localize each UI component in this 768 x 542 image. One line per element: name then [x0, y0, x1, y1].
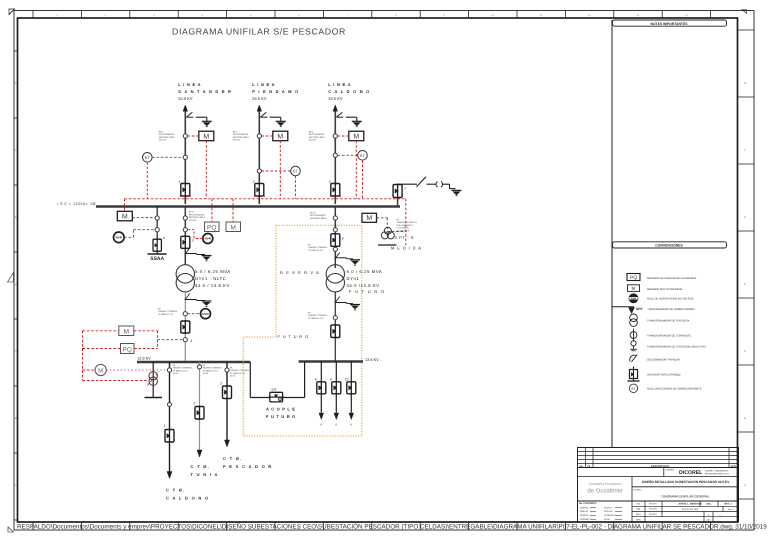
svg-text:13.8 KV: 13.8 KV: [365, 357, 379, 362]
svg-text:R: R: [350, 424, 352, 427]
svg-text:34.5 KV: 34.5 KV: [252, 96, 267, 101]
T2 secondary ground stub: [335, 303, 353, 304]
future feeder 10 tag: [350, 424, 352, 427]
svg-text:A: A: [15, 483, 17, 487]
svg-text:TRANSF. CORRIEN-: TRANSF. CORRIEN-: [308, 314, 328, 317]
svg-text:REVISÓ: REVISÓ: [580, 514, 589, 517]
svg-text:TRANSF. CORRIEN-: TRANSF. CORRIEN-: [203, 367, 223, 370]
feeder 1 junction red: [167, 368, 171, 372]
drawing title: [172, 27, 346, 37]
T1 disconnector note: [189, 211, 206, 222]
metering 3 PTs symbol: [381, 227, 394, 239]
svg-text:CIAL 34500/120 V: CIAL 34500/120 V: [397, 224, 415, 227]
T2 rating text: [347, 269, 386, 294]
control loop M PQ right join: [134, 331, 158, 349]
PQ box feeder metering: [121, 344, 135, 354]
legend RVR relay: [629, 294, 694, 303]
T2 junction below breaker: [333, 247, 337, 251]
metering M box right: [362, 213, 377, 222]
T2 junction upper: [333, 216, 337, 220]
svg-text:DYn1 - NLTC: DYn1 - NLTC: [195, 276, 226, 281]
svg-text:TE 300/5 CL 0.3: TE 300/5 CL 0.3: [308, 317, 324, 320]
PT branch ground wire: [450, 184, 456, 188]
svg-text:RVR: RVR: [205, 237, 212, 241]
feeder 3 wire: [226, 362, 228, 440]
bus PT red cross: [148, 372, 160, 386]
T1 junction lower: [183, 228, 187, 232]
svg-text:C: C: [744, 349, 746, 353]
legend DPS surge arrester: [613, 307, 695, 314]
svg-text:R: R: [320, 424, 322, 427]
acople breaker 5.8: [269, 392, 285, 402]
svg-text:DIAGRAMA UNIFILAR S/E PESCA: DIAGRAMA UNIFILAR S/E PESCADOR: [172, 27, 346, 37]
control dash T1sec to RVR: [188, 313, 201, 315]
svg-text:RVR: RVR: [631, 298, 637, 301]
line 2 relay 67 junction: [257, 169, 261, 173]
label CTO TUNIA: [191, 464, 219, 477]
svg-text:DPS: DPS: [636, 307, 643, 311]
T1 junction 4 label: [190, 339, 192, 343]
line 2 breaker number: [253, 180, 255, 184]
svg-text:2: 2: [194, 402, 196, 406]
svg-text:15 VA: 15 VA: [203, 372, 209, 375]
svg-text:R E S E R V A: R E S E R V A: [280, 270, 320, 275]
svg-text:ESCALA: ESCALA: [604, 510, 613, 513]
svg-text:E: E: [15, 215, 17, 219]
notes panel header bar NOTAS IMPORTANTES: [613, 20, 727, 26]
bus PT terminal bar: [145, 397, 163, 399]
line 1 earthing switch blade: [186, 112, 193, 117]
T1 ground stub: [185, 254, 205, 255]
control dash M SSAA to branch: [132, 217, 155, 219]
svg-text:R: R: [335, 424, 337, 427]
relay RVR T1: [203, 234, 213, 244]
svg-text:M: M: [632, 286, 636, 292]
future feeder 9 tag: [335, 424, 337, 427]
svg-text:E: E: [744, 215, 746, 219]
svg-text:5: 5: [192, 239, 194, 243]
svg-text:FORMATO: FORMATO: [604, 514, 615, 517]
svg-text:MOTORIZ. 600 A: MOTORIZ. 600 A: [309, 136, 326, 139]
line 1 control dash M down to control bus: [205, 141, 207, 199]
line 1 incoming feeder wire: [183, 105, 188, 204]
T1 secondary junction 4: [183, 338, 187, 342]
feeder 2 CT note: [203, 364, 223, 375]
svg-text:1: 1: [164, 424, 166, 428]
svg-text:- TRANSFORMADOR DE CORRIENTE: - TRANSFORMADOR DE CORRIENTE: [646, 334, 692, 337]
feeder 1 number: [164, 424, 166, 428]
svg-text:PQ: PQ: [207, 225, 216, 232]
line 1 control dash 67 down: [146, 162, 148, 199]
line 3 earthing switch wire: [346, 117, 357, 121]
svg-text:7: 7: [404, 187, 406, 191]
line 3 control dash circle to M: [338, 135, 349, 137]
metering PT note text: [397, 219, 418, 233]
future feeder 8 breaker: [317, 381, 326, 395]
registration mark top-right: [742, 10, 747, 14]
svg-text:TE 300/5 CL 0.3: TE 300/5 CL 0.3: [203, 369, 219, 372]
SSAA branch wire: [156, 207, 158, 254]
T2 ground stub: [335, 258, 353, 259]
svg-text:34.5 KV: 34.5 KV: [309, 139, 317, 142]
acople right wire: [283, 397, 305, 399]
svg-text:RVR: RVR: [116, 236, 123, 240]
svg-text:APR.: APR.: [636, 518, 641, 521]
acople right riser: [304, 362, 306, 398]
T2 secondary CT note: [308, 312, 328, 320]
line 3 relay 67 junction: [333, 153, 337, 157]
line 2 control dash M down to control bus: [279, 141, 281, 199]
line 3 breaker control stubs: [330, 196, 340, 199]
svg-text:3 PT ' S: 3 PT ' S: [395, 235, 415, 240]
svg-text:C T Ø.: C T Ø.: [191, 464, 211, 469]
svg-text:P07-EL-PL-002: P07-EL-PL-002: [682, 508, 699, 511]
svg-text:Compañía Energética: Compañía Energética: [589, 482, 622, 486]
legend voltage transformer: [630, 341, 705, 351]
svg-text:M: M: [124, 329, 129, 336]
T2 secondary breaker: [331, 324, 340, 339]
bus 13.8 kV left: [137, 361, 250, 363]
PQ box T1: [205, 222, 220, 232]
line 1 motor operator M box: [199, 131, 214, 141]
svg-text:5.0 / 6.25 MVA: 5.0 / 6.25 MVA: [347, 269, 383, 274]
PT bar terminal: [378, 244, 397, 246]
svg-text:10: 10: [345, 378, 349, 382]
T1 breaker 5: [181, 235, 190, 249]
line 2 earthing switch blade: [260, 112, 267, 117]
registration mark top-left: [9, 9, 15, 15]
svg-text:TRANSF. CORRIEN-: TRANSF. CORRIEN-: [173, 367, 193, 370]
control loop to M: [83, 330, 119, 332]
svg-text:FECHA: FECHA: [649, 513, 657, 516]
svg-text:JORGE L. MENDOZA: JORGE L. MENDOZA: [678, 503, 702, 506]
svg-text:F U T U R O: F U T U R O: [266, 414, 296, 419]
transformer T2: [326, 265, 344, 292]
T2 junction lower: [333, 228, 337, 232]
T2 disconnector note: [310, 212, 327, 220]
M box T1: [226, 222, 241, 232]
registration mark left-middle: [8, 273, 14, 283]
T1 secondary junction note: [158, 308, 178, 316]
svg-text:TRANSF. DE POTEN-: TRANSF. DE POTEN-: [397, 221, 418, 224]
feeder 2 arrow: [197, 450, 202, 457]
notes panel left edge: [611, 20, 613, 448]
svg-text:M E D I D A: M E D I D A: [391, 246, 422, 251]
feeder 1 arrow: [167, 472, 172, 479]
svg-text:RVR: RVR: [202, 312, 209, 316]
svg-text:S A N T A N D E R: S A N T A N D E R: [178, 89, 232, 94]
disconnect switch on PT branch: [417, 177, 437, 187]
line 3 label LINEA C A L D O N O: [328, 82, 370, 101]
svg-text:89-T2: 89-T2: [310, 212, 316, 215]
bus PT circles: [149, 372, 157, 386]
PT branch ground: [452, 190, 462, 195]
svg-text:HOJA: HOJA: [604, 518, 610, 521]
svg-text:M: M: [230, 225, 235, 232]
svg-text:- SECCIONADOR TRIPOLAR: - SECCIONADOR TRIPOLAR: [646, 358, 681, 361]
line 3 ground: [352, 121, 362, 126]
svg-text:I S C = 1225A= 1Ø: I S C = 1225A= 1Ø: [57, 202, 96, 206]
svg-text:34.5 KV: 34.5 KV: [328, 96, 343, 101]
label 13.8 KV right: [365, 357, 379, 362]
legend withdrawable breaker: [628, 367, 682, 382]
svg-text:RESPALDO\Documentos\Documents: RESPALDO\Documentos\Documents y emprev\P…: [17, 523, 768, 531]
svg-text:4: 4: [163, 236, 165, 240]
line 1 label LINEA S A N T A N D E R: [178, 82, 232, 101]
line 2 control dash circle to M: [262, 135, 273, 137]
svg-text:34.5 KV: 34.5 KV: [178, 96, 193, 101]
svg-text:PQ: PQ: [630, 275, 637, 281]
svg-text:34.5 KV: 34.5 KV: [189, 219, 197, 222]
future feeder 10 number: [345, 378, 349, 382]
svg-text:DISEÑO / INGENIERIA: DISEÑO / INGENIERIA: [705, 470, 728, 473]
line 1 control dash circle to M: [188, 135, 199, 137]
svg-text:No. CONTRATO:: No. CONTRATO:: [579, 502, 597, 505]
line 3 control dash 67 down: [362, 160, 364, 199]
line 3 control dash line to 67: [338, 154, 358, 156]
svg-text:SECCIONADOR: SECCIONADOR: [189, 213, 205, 216]
T1 primary wire: [184, 207, 186, 266]
svg-text:67: 67: [293, 169, 298, 174]
svg-text:FECHA: FECHA: [649, 503, 657, 506]
line 2 motor operator M box: [273, 131, 288, 141]
svg-text:DISEÑÓ: DISEÑÓ: [580, 506, 589, 509]
svg-text:de Occidente: de Occidente: [587, 488, 623, 495]
T1 secondary ground stub: [185, 300, 205, 301]
T1 breaker number 5: [192, 239, 194, 243]
acople left riser: [249, 362, 251, 398]
title block project and plano rows: [632, 480, 739, 499]
svg-text:- TRANSFORMADOR DE POTENCIA: - TRANSFORMADOR DE POTENCIA: [646, 320, 690, 323]
legend 67 directional relay: [629, 384, 702, 392]
svg-text:15 VA: 15 VA: [230, 375, 236, 378]
feeder 3 CT note: [230, 367, 250, 378]
svg-text:- RELE DE VERIFICACION DE VOLT: - RELE DE VERIFICACION DE VOLTAJE: [646, 298, 694, 301]
svg-text:C A L D O N O: C A L D O N O: [328, 89, 370, 94]
svg-text:4: 4: [190, 339, 192, 343]
svg-text:No. 2: No. 2: [728, 508, 734, 511]
T2 disconnect blade: [335, 253, 340, 260]
open gap switch on PT branch: [436, 182, 450, 188]
control dash RVR T1: [188, 230, 203, 239]
SSAA junction lower: [155, 228, 159, 232]
revision table: [578, 448, 739, 468]
line 1 relay 67: [143, 153, 153, 163]
svg-text:- TRANSFORMADOR DE POTENCIAL I: - TRANSFORMADOR DE POTENCIAL INDUCTIVO: [646, 345, 706, 348]
svg-text:1: 1: [179, 180, 181, 184]
svg-text:DE: DE: [707, 519, 711, 522]
line 1 disconnector label: [159, 131, 176, 142]
acople breaker label 5.8: [272, 388, 277, 392]
line 1 breaker 52-1: [181, 183, 190, 198]
breaker 7 riser: [397, 198, 399, 207]
svg-text:F U T U R O: F U T U R O: [278, 334, 309, 339]
svg-text:- INTERRUPTOR EXTRAIBLE: - INTERRUPTOR EXTRAIBLE: [646, 374, 682, 377]
control loop to junction 4: [158, 339, 184, 341]
T2 CT note: [308, 244, 328, 252]
line 2 control dash 67 down: [295, 176, 297, 199]
relay RVR T1 secondary: [201, 309, 211, 319]
SSAA fuse switch: [153, 238, 161, 252]
svg-text:F U T U R O: F U T U R O: [349, 289, 385, 294]
svg-text:3: 3: [220, 382, 222, 386]
svg-text:3 UNIDADES: 3 UNIDADES: [397, 229, 410, 232]
svg-text:ESC.: ESC.: [706, 503, 711, 506]
svg-text:REV. 1: REV. 1: [724, 503, 732, 506]
label CTO PESCADOR: [223, 456, 273, 469]
future feeder 10 wire: [350, 362, 352, 413]
transformer T1: [176, 265, 194, 292]
svg-text:TRANSF. CORRIEN-: TRANSF. CORRIEN-: [308, 246, 328, 249]
svg-text:DIAGRAMA UNIFILAR GENERAL: DIAGRAMA UNIFILAR GENERAL: [661, 495, 710, 499]
svg-text:- RELE DIRECCIONAL DE SOBRECOR: - RELE DIRECCIONAL DE SOBRECORRIENTE: [646, 388, 702, 391]
legend current transformer: [630, 329, 691, 342]
svg-text:REV.: REV.: [636, 513, 641, 516]
control dash down to M T1: [232, 199, 234, 222]
label ISC: [57, 202, 96, 206]
T1 rating text: [195, 269, 231, 288]
line 2 control dash line to 67: [262, 170, 291, 172]
future zone orange dashed box: [243, 225, 362, 436]
legend power transformer: [630, 314, 690, 326]
svg-text:MOTORIZ. 600 A: MOTORIZ. 600 A: [310, 217, 327, 220]
registration mark bottom-left: [8, 527, 14, 532]
svg-text:34.5 KV: 34.5 KV: [233, 139, 241, 142]
line 2 breaker 52-2: [255, 183, 264, 198]
line 1 ground: [202, 121, 212, 126]
future feeder 9 number: [330, 378, 332, 382]
title block consultant row DICOREL: [578, 468, 739, 523]
T2 breaker 6: [331, 233, 340, 248]
svg-text:C T Ø.: C T Ø.: [166, 488, 186, 493]
line 2 ground: [276, 121, 286, 126]
svg-text:89-T1: 89-T1: [189, 211, 195, 214]
T1 secondary breaker: [181, 320, 190, 334]
svg-text:D: D: [15, 282, 17, 286]
future feeder 9 arrow: [334, 413, 339, 420]
svg-text:L I N E A: L I N E A: [252, 82, 275, 87]
line 3 breaker number: [329, 180, 331, 184]
svg-text:INTERVENTORIA S.A.S.: INTERVENTORIA S.A.S.: [705, 473, 730, 476]
M box feeder metering: [119, 326, 134, 336]
line 2 earthing switch wire: [270, 117, 281, 121]
svg-text:15 VA: 15 VA: [173, 372, 179, 375]
M box SSAA: [117, 211, 132, 221]
svg-text:9: 9: [330, 378, 332, 382]
line 3 disconnector label: [309, 131, 326, 142]
breaker 7 top wire: [398, 183, 417, 186]
client logo Compania Energetica de Occidente: [587, 477, 632, 502]
T1 secondary junction: [183, 312, 187, 316]
line 1 breaker control stubs: [180, 196, 190, 199]
svg-text:TE 300/5 CL 0.3: TE 300/5 CL 0.3: [158, 313, 174, 316]
label RESERVA: [280, 270, 320, 275]
line 3 motor operator M box: [349, 131, 364, 141]
svg-text:34.5 KV: 34.5 KV: [159, 139, 167, 142]
future feeder 8 arrow: [319, 413, 324, 420]
control dash PT cross: [387, 231, 406, 233]
svg-text:APROBÓ: APROBÓ: [580, 518, 590, 521]
svg-text:5.8: 5.8: [272, 388, 277, 392]
control dash down to PQ T1: [211, 199, 213, 222]
T1 secondary disconnect: [185, 294, 190, 301]
control dash PT drop: [386, 218, 388, 232]
svg-text:C A L D O N O: C A L D O N O: [166, 496, 209, 501]
svg-text:A C O P L E: A C O P L E: [266, 407, 296, 412]
control dash corner down right: [405, 199, 407, 246]
svg-text:34.5 / 13.8 KV: 34.5 / 13.8 KV: [195, 283, 230, 288]
svg-text:3: 3: [329, 180, 331, 184]
svg-text:8: 8: [315, 378, 317, 382]
line 1 breaker number: [179, 180, 181, 184]
feeder 1 breaker: [165, 429, 174, 444]
line 2 breaker control stubs: [254, 196, 264, 199]
svg-text:DICOREL: DICOREL: [679, 470, 703, 476]
svg-text:SECCIONADOR: SECCIONADOR: [159, 133, 175, 136]
feeder 2 breaker: [195, 406, 204, 421]
T2 secondary ground: [350, 305, 360, 310]
svg-text:G: G: [15, 81, 17, 85]
legend disconnector: [630, 355, 680, 362]
svg-text:MOTORIZ. 600 A: MOTORIZ. 600 A: [233, 136, 250, 139]
line 3 earthing switch blade: [336, 112, 343, 117]
svg-text:D: D: [744, 282, 746, 286]
SSAA terminal bar: [148, 253, 167, 255]
svg-text:M: M: [366, 215, 372, 222]
control dash RVR to branch: [124, 230, 155, 238]
svg-text:2: 2: [253, 180, 255, 184]
line 3 disconnector junction: [333, 134, 337, 138]
future feeder 8 tag: [320, 424, 322, 427]
svg-text:PLANO:: PLANO:: [634, 488, 642, 491]
svg-text:F: F: [15, 148, 17, 152]
svg-text:PQ: PQ: [123, 346, 132, 353]
feeder 2 number: [194, 402, 196, 406]
svg-text:L I N E A: L I N E A: [328, 82, 351, 87]
T2 primary ground: [350, 260, 360, 265]
svg-text:- DESCARGADOR DE SOBRETENSION: - DESCARGADOR DE SOBRETENSION: [647, 308, 695, 311]
label CTO CALDONO: [166, 488, 209, 501]
label 3 PTs: [395, 235, 415, 240]
svg-text:F: F: [744, 148, 746, 152]
T1 junction upper: [183, 216, 187, 220]
svg-text:5.0 / 6.25 MVA: 5.0 / 6.25 MVA: [195, 269, 231, 274]
line 3 breaker 52-3: [331, 183, 340, 198]
future feeder 8 wire: [320, 362, 322, 413]
plot footer path text: [17, 523, 768, 531]
T2 breaker number 6: [342, 237, 344, 241]
future feeder 10 arrow: [349, 413, 354, 420]
acople left wire: [250, 397, 270, 399]
svg-text:6: 6: [342, 237, 344, 241]
feeder 1 junction: [168, 403, 172, 407]
bus PT drop wire: [152, 362, 154, 397]
label FUTURO left: [278, 334, 309, 339]
future feeder 10 breaker: [347, 381, 356, 395]
legend PQ power quality meter: [627, 274, 696, 282]
control dash M circle to feeder: [106, 369, 167, 371]
control loop to PQ: [83, 348, 121, 350]
svg-text:TE 300/5 CL 0.3: TE 300/5 CL 0.3: [173, 369, 189, 372]
legend M meter: [628, 285, 684, 292]
title block left signature fields: [578, 501, 739, 522]
feeder 2 wire gray: [199, 362, 201, 450]
bus 34.5 kV: [96, 205, 400, 207]
svg-text:P E S C A D O R: P E S C A D O R: [223, 464, 273, 469]
label SSAA: [150, 256, 164, 262]
svg-text:G: G: [744, 81, 746, 85]
svg-text:M: M: [203, 134, 209, 141]
